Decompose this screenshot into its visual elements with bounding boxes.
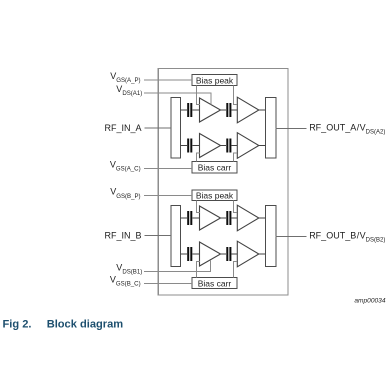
wire bias peak B drop2 bbox=[234, 201, 237, 213]
wire amp2 to combiner top B bbox=[259, 217, 266, 219]
wire C1 to amp1 top A bbox=[192, 109, 200, 111]
Bias peak box B bbox=[192, 190, 237, 201]
wire VGS(B_P) bbox=[144, 195, 192, 197]
wire C2 to amp2 top B bbox=[231, 217, 236, 219]
svg-text:Bias carr: Bias carr bbox=[198, 279, 232, 289]
op-amp A top stage1 bbox=[200, 98, 221, 122]
wire RF_IN_A to splitter bbox=[145, 127, 171, 129]
wire bias carr B rise2 bbox=[234, 261, 237, 277]
Bias carr box A bbox=[192, 162, 237, 174]
combiner A bbox=[265, 98, 276, 159]
wire RF_OUT_A bbox=[276, 127, 307, 129]
svg-text:Fig 2.Block diagram: Fig 2.Block diagram bbox=[3, 319, 124, 331]
op-amp B top stage2 bbox=[237, 205, 258, 231]
wire VGS(A_C) bbox=[144, 168, 192, 170]
wire VDS(B1) bbox=[144, 260, 211, 272]
svg-text:Bias peak: Bias peak bbox=[196, 190, 234, 200]
op-amp B bottom stage2 bbox=[237, 241, 258, 267]
wire C2 to amp2 top A bbox=[231, 109, 236, 111]
op-amp B bottom stage1 bbox=[200, 242, 221, 266]
svg-text:amp00034: amp00034 bbox=[354, 298, 385, 305]
capacitor C1 top A bbox=[187, 103, 192, 117]
wire amp1 to C2 top A bbox=[221, 109, 227, 111]
wire C1 to amp1 bottom A bbox=[192, 145, 200, 147]
wire amp1 to C2 bottom A bbox=[221, 145, 227, 147]
op-amp B top stage1 bbox=[200, 206, 221, 230]
wire splitter to C1 top A bbox=[181, 109, 188, 111]
splitter A bbox=[171, 98, 181, 159]
op-amp A top stage2 bbox=[237, 97, 258, 123]
wire VGS(B_C) bbox=[144, 282, 192, 284]
wire amp2 to combiner bottom B bbox=[259, 253, 266, 255]
wire amp1 to C2 bottom B bbox=[221, 253, 227, 255]
combiner B bbox=[265, 206, 276, 267]
wire bias carr A rise2 bbox=[234, 153, 237, 162]
svg-text:RF_IN_B: RF_IN_B bbox=[104, 230, 141, 240]
wire bias peak A drop2 bbox=[234, 86, 237, 105]
wire C1 to amp1 top B bbox=[192, 217, 200, 219]
wire splitter to C1 bottom B bbox=[181, 253, 188, 255]
wire C2 to amp2 bottom B bbox=[231, 253, 236, 255]
capacitor C2 top B bbox=[226, 211, 231, 225]
wire bias carr B rise1 bbox=[196, 262, 200, 278]
wire bias peak A drop1 bbox=[196, 86, 200, 105]
wire bias peak B drop1 bbox=[196, 201, 200, 213]
svg-text:RF_IN_A: RF_IN_A bbox=[104, 123, 141, 133]
wire RF_IN_B to splitter bbox=[145, 235, 171, 237]
wire amp2 to combiner top A bbox=[259, 109, 266, 111]
wire RF_OUT_B bbox=[276, 235, 307, 237]
svg-text:Bias carr: Bias carr bbox=[198, 163, 232, 173]
capacitor C2 top A bbox=[226, 103, 231, 117]
capacitor C2 bottom A bbox=[226, 139, 231, 153]
svg-text:Bias peak: Bias peak bbox=[196, 75, 234, 85]
capacitor C1 bottom A bbox=[187, 139, 192, 153]
capacitor C1 bottom B bbox=[187, 247, 192, 261]
splitter B bbox=[171, 206, 181, 267]
wire C1 to amp1 bottom B bbox=[192, 253, 200, 255]
wire VDS(A1) bbox=[144, 93, 211, 104]
outer block boundary bbox=[158, 69, 288, 296]
Bias carr box B bbox=[192, 278, 237, 289]
wire splitter to C1 top B bbox=[181, 217, 188, 219]
wire amp1 to C2 top B bbox=[221, 217, 227, 219]
wire amp2 to combiner bottom A bbox=[259, 145, 266, 147]
wire bias carr A rise1 bbox=[196, 153, 200, 161]
wire C2 to amp2 bottom A bbox=[231, 145, 236, 147]
wire VGS(A_P) bbox=[144, 79, 192, 81]
Bias peak box A bbox=[192, 75, 237, 86]
capacitor C2 bottom B bbox=[226, 247, 231, 261]
op-amp A bottom stage2 bbox=[237, 133, 258, 159]
op-amp A bottom stage1 bbox=[200, 134, 221, 158]
wire splitter to C1 bottom A bbox=[181, 145, 188, 147]
capacitor C1 top B bbox=[187, 211, 192, 225]
